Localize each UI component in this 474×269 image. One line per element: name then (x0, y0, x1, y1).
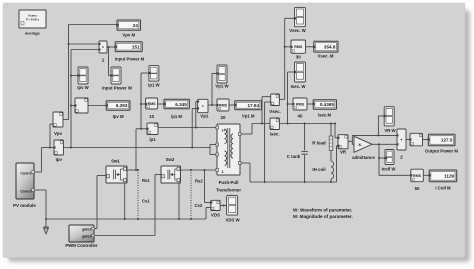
svg-text:RMS: RMS (413, 174, 422, 178)
svg-text:Sw1: Sw1 (111, 159, 120, 164)
svg-text:17.94: 17.94 (248, 103, 260, 108)
svg-text:gate1: gate1 (82, 228, 91, 232)
svg-text:ip1 W: ip1 W (148, 83, 160, 88)
svg-text:6.345: 6.345 (175, 102, 187, 107)
svg-text:Isec. W: Isec. W (291, 84, 307, 89)
svg-text:2-: 2- (222, 170, 225, 174)
svg-text:RMS: RMS (296, 103, 305, 107)
svg-text:C tank: C tank (287, 154, 301, 159)
svg-text:I Coil M: I Coil M (435, 186, 451, 191)
svg-text:Sw2: Sw2 (166, 157, 175, 162)
svg-text:ip1 M: ip1 M (171, 114, 182, 119)
svg-text:10: 10 (149, 114, 154, 119)
svg-text:Ipv M: Ipv M (113, 114, 124, 119)
svg-text:Cs2: Cs2 (195, 203, 203, 208)
svg-text:1: 1 (102, 58, 105, 63)
svg-text:VDS W: VDS W (225, 218, 240, 223)
svg-text:RMS: RMS (219, 104, 228, 108)
svg-text:RMS: RMS (294, 45, 303, 49)
svg-text:M: Magnitude of parameter.: M: Magnitude of parameter. (293, 214, 353, 219)
svg-text:50: 50 (415, 186, 420, 191)
svg-text:Rs1: Rs1 (142, 178, 150, 183)
svg-text:Isec.: Isec. (270, 132, 280, 137)
svg-text:IH coil: IH coil (312, 167, 325, 172)
svg-text:-K-: -K- (358, 143, 363, 147)
svg-text:Isec.M: Isec.M (318, 113, 332, 118)
svg-text:admittance: admittance (352, 155, 375, 160)
svg-text:Conn1: Conn1 (20, 171, 31, 175)
svg-text:30: 30 (296, 55, 301, 60)
svg-text:Icoil W: Icoil W (382, 167, 397, 172)
svg-text:Conn2: Conn2 (20, 189, 31, 193)
svg-text:1129: 1129 (444, 174, 454, 179)
svg-text:Vsec. W: Vsec. W (289, 28, 306, 33)
svg-text:Push-Pull: Push-Pull (219, 180, 239, 185)
svg-text:151: 151 (132, 44, 140, 49)
svg-text:VR W: VR W (384, 128, 396, 133)
svg-text:354.8: 354.8 (324, 44, 336, 49)
svg-text:Vpv M: Vpv M (122, 33, 135, 38)
svg-text:Vp1 W: Vp1 W (215, 84, 229, 89)
svg-text:R load: R load (312, 140, 326, 145)
svg-text:Ipv W: Ipv W (77, 85, 89, 90)
svg-text:W: Waveform of parameter.: W: Waveform of parameter. (293, 207, 352, 212)
svg-text:127.5: 127.5 (441, 138, 453, 143)
svg-text:Cs1: Cs1 (142, 199, 150, 204)
svg-text:Output Power M: Output Power M (425, 149, 458, 154)
svg-text:VDS: VDS (211, 213, 220, 218)
svg-text:P = 24 W a: P = 24 W a (26, 18, 39, 22)
svg-text:PWM Controller: PWM Controller (65, 243, 98, 248)
svg-text:Rs2: Rs2 (195, 179, 203, 184)
svg-text:Input Power W: Input Power W (102, 86, 133, 91)
svg-text:gate2: gate2 (82, 234, 91, 238)
svg-text:Vp1: Vp1 (200, 113, 209, 118)
svg-text:Vsec. M: Vsec. M (317, 54, 333, 59)
svg-text:average: average (25, 30, 41, 35)
svg-text:PV module: PV module (13, 203, 36, 208)
svg-text:Vsens: Vsens (28, 14, 37, 18)
svg-text:2: 2 (400, 155, 403, 160)
svg-text:VR: VR (340, 150, 347, 155)
svg-text:0.4365: 0.4365 (320, 102, 334, 107)
svg-text:Transformer: Transformer (216, 187, 241, 192)
svg-text:40: 40 (298, 114, 303, 119)
svg-text:24: 24 (133, 23, 139, 28)
svg-text:20: 20 (221, 115, 226, 120)
svg-text:6.293: 6.293 (116, 103, 128, 108)
svg-text:Input Power M: Input Power M (115, 57, 145, 62)
svg-text:Vsec.: Vsec. (269, 109, 280, 114)
svg-text:Ipv: Ipv (56, 157, 63, 162)
svg-text:ip1: ip1 (149, 137, 156, 142)
svg-text:Vp1 M: Vp1 M (242, 114, 255, 119)
svg-text:Vpv: Vpv (54, 131, 63, 136)
